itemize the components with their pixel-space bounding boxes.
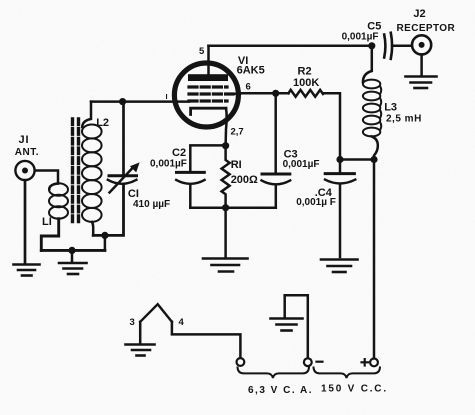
- ground under C4: [321, 260, 358, 273]
- brace 6.3V: [238, 368, 310, 379]
- svg-text:2,7: 2,7: [231, 127, 244, 138]
- capacitor C2 plates: [177, 171, 205, 174]
- ground under tank bus: [71, 250, 74, 261]
- svg-text:L3: L3: [384, 102, 397, 114]
- wire C3 bottom lead: [275, 186, 278, 208]
- wire pin4 to heater terminal: [172, 322, 241, 358]
- node tank junction: [119, 98, 126, 105]
- wire pin3 to ground: [139, 322, 142, 343]
- resistor R2: [289, 90, 323, 97]
- wire J2 to ground: [420, 55, 423, 76]
- svg-text:0,001µF: 0,001µF: [342, 32, 379, 43]
- node screen junction: [272, 90, 279, 97]
- brace 150V: [314, 368, 381, 379]
- capacitor C4 plates: [325, 172, 354, 175]
- wire screen node bus: [340, 158, 374, 161]
- tube plate (anode) bar: [188, 74, 228, 81]
- resistor R1: [222, 146, 230, 208]
- svg-text:200Ω: 200Ω: [231, 174, 258, 186]
- svg-text:J2: J2: [413, 8, 425, 20]
- tube grid dashes row 1: [189, 85, 227, 88]
- svg-text:100K: 100K: [293, 77, 319, 89]
- wire to C2: [190, 145, 225, 171]
- wire to ground under R1: [224, 208, 227, 257]
- svg-text:0,001µ F: 0,001µ F: [296, 197, 336, 208]
- wire pin5 riser into tube: [207, 46, 210, 76]
- jack J1: [15, 161, 34, 180]
- svg-text:0,001µF: 0,001µF: [283, 159, 320, 170]
- wire C4 top lead: [339, 160, 342, 174]
- wire L2 bottom lead: [92, 222, 93, 236]
- tube grid dashes row 2 (screen to pin 6): [189, 92, 233, 95]
- wire C3 branch: [274, 93, 277, 173]
- svg-text:0,001µF: 0,001µF: [150, 159, 187, 170]
- terminal heater: [237, 358, 245, 366]
- node C4 junction: [336, 156, 343, 163]
- svg-text:C2: C2: [172, 147, 186, 159]
- capacitor C1 plates: [109, 174, 137, 177]
- wire top plate lead from pin 5 to C5 junction: [209, 45, 372, 48]
- svg-text:410 µµF: 410 µµF: [133, 199, 170, 210]
- svg-text:6AK5: 6AK5: [237, 65, 265, 77]
- svg-text:I: I: [166, 92, 168, 101]
- capacitor C3 plates: [262, 173, 290, 176]
- svg-text:LI: LI: [42, 216, 52, 228]
- svg-text:ANT.: ANT.: [15, 147, 39, 158]
- capacitor C1 branch wire: [122, 102, 125, 175]
- tube V1 envelope: [174, 63, 238, 127]
- jack J2: [412, 35, 431, 54]
- wire B+ down to terminal: [373, 160, 376, 359]
- wire minus branch: [285, 295, 308, 358]
- wire grid pin 1 from tank: [91, 100, 189, 103]
- inductor L2: [82, 102, 91, 127]
- svg-text:R2: R2: [298, 66, 312, 78]
- node B+ junction: [370, 156, 377, 163]
- wire ground bus left: [41, 249, 105, 252]
- node bottom bus junction: [222, 204, 229, 211]
- svg-text:JI: JI: [19, 134, 30, 146]
- svg-text:5: 5: [199, 46, 205, 57]
- wire C5 to J2: [392, 45, 412, 48]
- wire pin 6 to R2: [241, 92, 289, 95]
- svg-text:150 V C.C.: 150 V C.C.: [321, 384, 388, 395]
- tube grid dashes row 3 (control grid, pin 1): [189, 99, 227, 102]
- svg-text:2,5 mH: 2,5 mH: [386, 114, 422, 125]
- wire R2 to C4 node: [324, 93, 341, 159]
- ground under J1: [14, 265, 40, 276]
- svg-text:6,3 V C. A.: 6,3 V C. A.: [248, 385, 313, 396]
- wire C2 bottom lead: [189, 186, 192, 208]
- plus sign: [362, 361, 369, 363]
- tube cathode: [191, 108, 226, 114]
- ground near minus: [271, 319, 303, 331]
- wire C1 bottom lead: [93, 186, 123, 236]
- capacitor C5 plates: [384, 35, 385, 58]
- inductor L3: [363, 46, 372, 82]
- wire J1 to L1: [35, 171, 58, 184]
- svg-text:4: 4: [179, 317, 185, 328]
- svg-text:L2: L2: [96, 117, 109, 129]
- wire L1 bottom lead step: [41, 219, 58, 251]
- inductor L1: [49, 184, 58, 190]
- heater filament pins 3,4: [140, 304, 172, 322]
- core dashed lines between L1 and L2: [71, 119, 74, 224]
- terminal minus: [304, 358, 312, 366]
- svg-text:RI: RI: [231, 159, 242, 171]
- minus sign: [317, 361, 323, 363]
- node pins 2,7 junction: [222, 142, 229, 149]
- ground under R1: [203, 259, 248, 272]
- svg-text:3: 3: [130, 317, 135, 328]
- wire junction down to ground bus: [104, 235, 107, 250]
- node L2/C1 bottom junction: [101, 232, 108, 239]
- capacitor C1 arrow: [110, 169, 133, 193]
- ground under pin 3: [126, 345, 155, 356]
- wire cathode to pins 2,7: [226, 108, 227, 146]
- ground under J2: [406, 77, 437, 89]
- wire J1 to ground: [24, 180, 27, 262]
- svg-text:RECEPTOR: RECEPTOR: [397, 23, 456, 34]
- terminal B+: [370, 359, 378, 367]
- node junction at C5/L3: [368, 42, 375, 49]
- svg-text:6: 6: [246, 82, 251, 93]
- wire C4 bottom lead: [339, 185, 342, 257]
- node ground bus junction: [68, 247, 75, 254]
- wire bottom bus C2-R1-C3: [190, 206, 275, 209]
